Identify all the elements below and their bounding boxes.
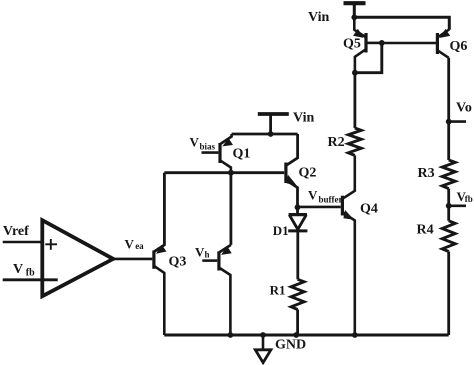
svg-text:R4: R4 <box>417 223 434 238</box>
wire top rail to Q6 <box>354 17 449 30</box>
wire node A horizontal <box>164 171 284 174</box>
resistor R4 <box>442 221 455 252</box>
resistor R1 <box>291 279 304 309</box>
svg-text:buffer: buffer <box>319 195 343 205</box>
wire Q6 collector to R3 <box>447 58 450 160</box>
label Vfb (left) <box>13 262 35 278</box>
wire Vbuffer to Q4 base <box>298 206 341 209</box>
node Q5 base <box>379 40 385 46</box>
label Vh <box>195 245 210 260</box>
wire Vref input <box>3 241 43 244</box>
label Vfb (right) <box>457 189 473 204</box>
svg-text:GND: GND <box>275 338 306 353</box>
svg-text:h: h <box>205 250 210 260</box>
power symbol Vin (middle) <box>258 114 289 134</box>
svg-text:R2: R2 <box>328 135 345 150</box>
label Vbias <box>190 135 216 152</box>
svg-text:R3: R3 <box>418 166 435 181</box>
wire Q1 emitter rail <box>232 133 298 136</box>
resistor R3 <box>442 160 455 189</box>
node Vfb (right) <box>446 203 466 209</box>
svg-text:Q2: Q2 <box>299 166 317 181</box>
transistor Q5 (PNP, diode-connected) <box>353 17 382 72</box>
svg-text:Vref: Vref <box>3 224 29 239</box>
transistor Q1 (PNP) <box>202 134 234 173</box>
svg-text:Vin: Vin <box>308 10 329 25</box>
svg-text:V: V <box>190 135 200 150</box>
svg-text:ea: ea <box>135 241 144 251</box>
svg-text:bias: bias <box>200 142 216 152</box>
wire Vfb input <box>3 278 58 281</box>
svg-text:Q6: Q6 <box>450 39 468 54</box>
wire node A down to Vh transistor <box>229 173 232 245</box>
svg-text:V: V <box>125 237 135 252</box>
transistor Q3 (PNP) <box>154 173 167 335</box>
svg-text:R1: R1 <box>270 283 286 298</box>
wire Q5 base-collector loop <box>355 43 382 73</box>
wire Q5 base to Q6 base <box>382 42 436 45</box>
wire R3 to R4 <box>447 189 450 221</box>
transistor Vh follower (PNP) <box>202 245 231 335</box>
svg-text:fb: fb <box>465 194 473 204</box>
transistor Q4 (NPN) <box>342 155 354 335</box>
wire Q5 collector to R2 <box>353 73 356 128</box>
node Vin middle <box>268 131 274 137</box>
label Vbuffer <box>308 188 343 205</box>
transistor Q2 (NPN) <box>286 134 298 207</box>
resistor R2 <box>348 128 361 155</box>
svg-text:Q5: Q5 <box>343 37 361 52</box>
svg-text:V: V <box>195 245 205 260</box>
label Vea <box>125 237 145 252</box>
wire R1 to rail <box>296 310 299 336</box>
transistor Q6 (PNP) <box>437 29 450 58</box>
ground symbol <box>255 335 271 363</box>
svg-text:V: V <box>308 188 318 203</box>
svg-text:Vo: Vo <box>456 101 472 116</box>
node rail R1 <box>293 332 299 338</box>
node A <box>228 170 234 176</box>
svg-text:Q3: Q3 <box>169 255 187 270</box>
svg-text:D1: D1 <box>273 223 289 238</box>
svg-text:Q1: Q1 <box>233 147 251 162</box>
node Q5 collector <box>352 70 358 76</box>
diode D1 <box>288 207 307 279</box>
wire op-amp output to Q3 base <box>113 258 152 261</box>
svg-text:Q4: Q4 <box>360 202 378 217</box>
node rail GND stub <box>260 332 266 338</box>
node rail Vh collector <box>228 332 234 338</box>
node Vo <box>446 119 466 125</box>
svg-text:Vin: Vin <box>293 111 314 126</box>
wire R4 to ground rail <box>447 252 450 336</box>
node Vbuffer <box>295 204 301 210</box>
power symbol Vin (top right) <box>344 3 366 17</box>
node rail Q4 emitter <box>352 332 358 338</box>
node dot Vin top <box>351 14 357 20</box>
op-amp U1 error amplifier <box>42 220 113 296</box>
svg-text:fb: fb <box>26 267 35 278</box>
svg-text:V: V <box>13 262 23 277</box>
ground rail <box>164 334 448 337</box>
